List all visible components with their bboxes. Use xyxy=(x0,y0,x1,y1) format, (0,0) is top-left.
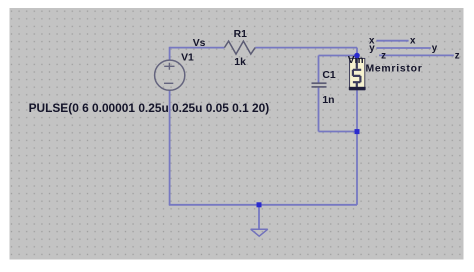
junction node at ground tee xyxy=(257,202,262,207)
wire capacitor top lead xyxy=(318,56,320,84)
wire top from R1 to memristor node xyxy=(255,47,357,49)
svg-text:V1: V1 xyxy=(181,53,194,64)
svg-text:z: z xyxy=(455,50,460,61)
wire capacitor bottom to node xyxy=(319,131,358,133)
svg-text:C1: C1 xyxy=(322,70,336,81)
wire memristor node down to bottom rail xyxy=(356,132,358,205)
svg-text:Vs: Vs xyxy=(193,38,206,49)
pin x wire xyxy=(376,40,408,42)
wire node to capacitor branch xyxy=(319,55,358,57)
wire top from V1 to R1 xyxy=(170,47,225,49)
svg-text:y: y xyxy=(432,43,438,54)
svg-text:R1: R1 xyxy=(234,29,248,40)
svg-text:PULSE(0 6 0.00001 0.25u 0.25u: PULSE(0 6 0.00001 0.25u 0.25u 0.05 0.1 2… xyxy=(29,101,270,115)
wire memristor top corner xyxy=(356,48,358,56)
svg-text:1n: 1n xyxy=(322,95,334,106)
pin z wire xyxy=(379,54,454,56)
wire ground stub xyxy=(258,205,260,229)
svg-text:Memristor: Memristor xyxy=(366,64,423,75)
wire memristor bottom lead xyxy=(356,90,358,132)
svg-text:1k: 1k xyxy=(234,57,246,68)
resistor R1 xyxy=(224,41,255,54)
junction node at memristor top xyxy=(354,53,360,59)
voltage source V1 xyxy=(155,60,185,90)
wire bottom rail xyxy=(169,204,357,206)
memristor U1 body xyxy=(349,58,366,90)
svg-text:z: z xyxy=(381,50,386,61)
wire vertical V1 top lead xyxy=(169,47,171,60)
junction node at memristor bottom xyxy=(355,129,360,134)
svg-text:y: y xyxy=(369,43,375,54)
wire vertical V1 bottom to bottom rail xyxy=(169,90,171,205)
ground symbol xyxy=(251,229,268,236)
svg-text:x: x xyxy=(410,35,416,46)
pin y wire xyxy=(376,47,430,49)
wire capacitor bottom lead xyxy=(318,87,320,132)
capacitor C1 xyxy=(312,83,327,87)
